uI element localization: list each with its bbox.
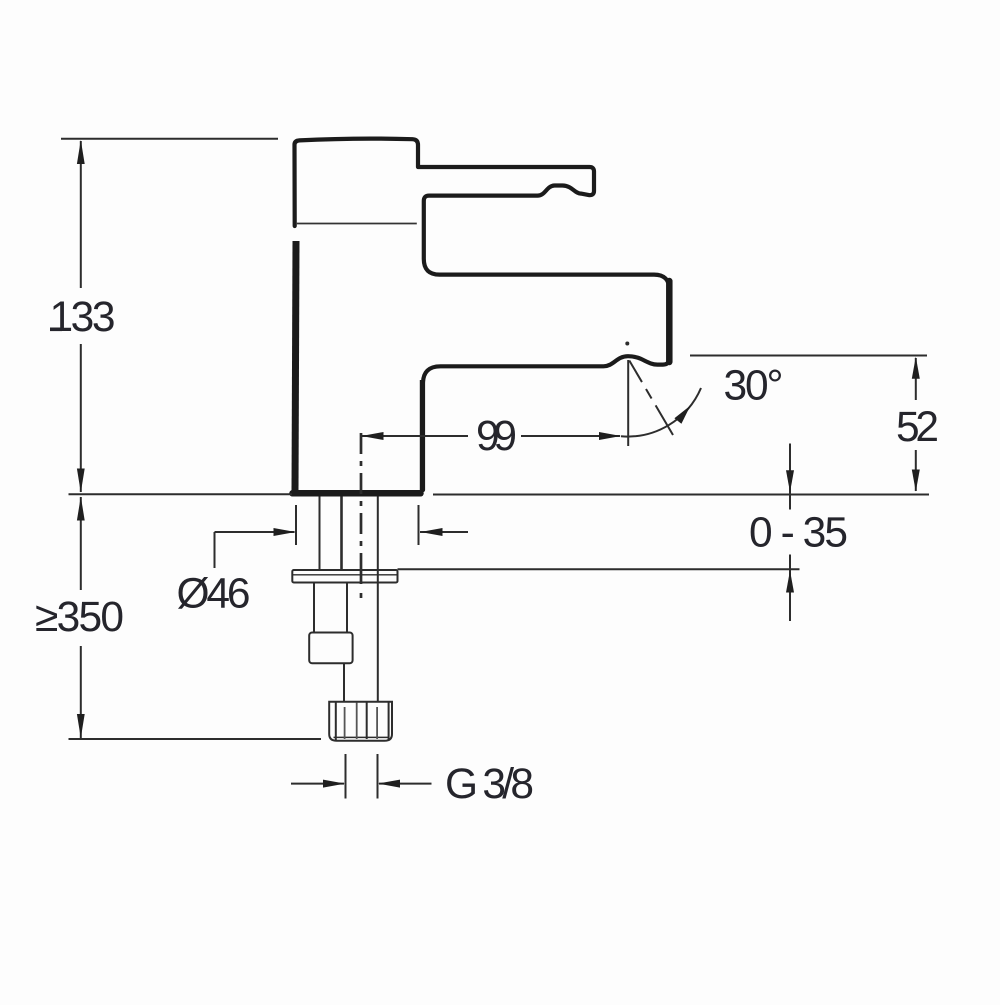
- O46 extension lines: [296, 505, 419, 545]
- hose between nut and knurl: [343, 663, 345, 701]
- 52 top arrow (up): [912, 357, 920, 379]
- svg-text:≥350: ≥350: [35, 594, 124, 641]
- G3/8 left arrow (right): [323, 780, 345, 788]
- >=350 bottom arrow (down): [77, 714, 85, 738]
- thin joint line under cap: [297, 223, 417, 225]
- 52 dim vertical: [915, 358, 917, 491]
- 99 dimension line: [362, 435, 620, 437]
- G3/8 extension lines: [346, 754, 378, 799]
- thick spout right edge: [666, 281, 673, 362]
- svg-text:30°: 30°: [724, 363, 784, 410]
- svg-text:G 3/8: G 3/8: [445, 761, 534, 808]
- svg-text:133: 133: [50, 294, 116, 341]
- 30deg dashed line: [629, 361, 673, 436]
- 30deg angle arc: [621, 388, 701, 437]
- O46 right arrow (left): [421, 528, 443, 536]
- O46 dim line + leader: [215, 532, 469, 568]
- 99 left arrow (left): [362, 432, 384, 440]
- svg-text:99: 99: [476, 413, 517, 460]
- 0-35 lower arrow (up): [786, 571, 794, 593]
- thick base line of body: [293, 490, 421, 497]
- tube below flange: [314, 584, 347, 633]
- dashed centerline: [360, 433, 363, 598]
- 0-35 upper arrow (down): [786, 470, 794, 492]
- dimension drawing thin lines: [61, 139, 929, 799]
- arc arrowhead: [674, 406, 690, 424]
- bottom reference line: [69, 738, 322, 740]
- faucet body outline: [294, 139, 669, 490]
- base plane line left: [69, 493, 293, 495]
- 30deg vertex vertical line: [627, 360, 629, 446]
- top extension line: [61, 138, 278, 140]
- 133 top arrow (up): [77, 140, 85, 164]
- knurled nut: [329, 702, 392, 741]
- >=350 top arrow (up): [77, 497, 85, 521]
- thick left edge of body: [295, 241, 296, 491]
- supply pipe lines under base: [319, 497, 321, 571]
- 133 bottom arrow (down): [77, 469, 85, 493]
- small dot above spout outlet: [625, 342, 629, 346]
- flange (escutcheon): [292, 570, 397, 583]
- thick body right edge below spout: [420, 380, 425, 490]
- >=350 dim vertical: [80, 497, 82, 738]
- svg-text:Ø46: Ø46: [177, 571, 251, 618]
- 99 right arrow (right): [599, 432, 621, 440]
- flange extension line: [398, 568, 800, 570]
- O46 left arrow (right): [274, 528, 296, 536]
- arrowheads: [77, 140, 920, 788]
- 52 bottom arrow (down): [912, 470, 920, 492]
- svg-text:52: 52: [896, 404, 939, 451]
- G3/8 dim line: [291, 783, 432, 785]
- compression nut: [309, 633, 352, 664]
- 52 extension line: [690, 355, 927, 357]
- 0-35 lower arrow line: [789, 555, 791, 622]
- G3/8 right arrow (left): [378, 780, 400, 788]
- 133 dim vertical: [80, 141, 82, 492]
- base plane line right: [433, 494, 929, 496]
- svg-text:0 - 35: 0 - 35: [749, 510, 848, 557]
- 0-35 upper arrow line: [789, 444, 791, 510]
